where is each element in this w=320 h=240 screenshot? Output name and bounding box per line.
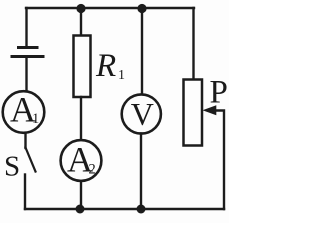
resistor R1 xyxy=(74,36,91,98)
wire V to bottom xyxy=(140,134,142,210)
wire top dot to V xyxy=(141,8,143,96)
svg-text:2: 2 xyxy=(89,162,96,178)
rheostat wiper arrowhead xyxy=(203,105,217,115)
node top junction right xyxy=(137,4,146,13)
svg-text:V: V xyxy=(131,96,154,132)
switch S blade xyxy=(26,148,36,172)
node top junction left xyxy=(76,4,85,13)
node bottom junction left xyxy=(76,205,85,214)
wire top dot to R1 xyxy=(80,8,82,36)
wire right vertical wiper feed xyxy=(214,111,225,210)
ammeter A2 xyxy=(61,140,102,181)
wire left top vertical xyxy=(25,8,27,45)
svg-text:P: P xyxy=(210,74,228,110)
svg-text:R: R xyxy=(95,48,116,84)
rheostat P body xyxy=(184,80,203,146)
svg-text:S: S xyxy=(4,151,20,183)
svg-text:1: 1 xyxy=(118,68,125,83)
wire switch to bottom xyxy=(24,175,26,210)
svg-text:1: 1 xyxy=(32,111,39,127)
wire top horizontal xyxy=(26,7,194,9)
wire R1 to A2 xyxy=(80,97,82,141)
node bottom junction right xyxy=(137,205,146,214)
battery xyxy=(12,48,43,57)
wire top to rheostat xyxy=(192,8,194,80)
wire bottom horizontal xyxy=(25,208,224,210)
wire battery to A1 xyxy=(25,58,27,92)
voltmeter V xyxy=(122,94,161,133)
ammeter A1 xyxy=(3,91,45,133)
wire A2 to bottom xyxy=(80,181,82,209)
wire A1 to switch xyxy=(24,133,26,148)
